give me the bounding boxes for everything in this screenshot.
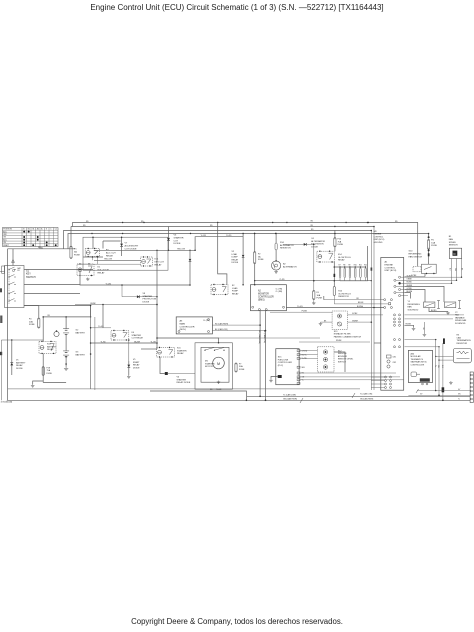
- ground below bullstop relay: [87, 278, 89, 279]
- wire shield drop x313: [313, 244, 315, 290]
- wire rd blk top: [299, 341, 370, 343]
- svg-text:DUMP: DUMP: [232, 257, 239, 259]
- wire from table: [39, 247, 41, 249]
- svg-text:LOAD: LOAD: [232, 253, 238, 256]
- svg-text:75A: 75A: [47, 369, 51, 372]
- svg-text:CONTROLLER: CONTROLLER: [411, 364, 425, 366]
- svg-text:N: N: [454, 252, 456, 256]
- controller A3 main controller: [176, 317, 212, 334]
- wire under A5 relay: [83, 256, 103, 258]
- svg-text:WH: WH: [454, 268, 456, 272]
- svg-text:R8: R8: [343, 265, 345, 267]
- svg-text:STARTER: STARTER: [177, 349, 187, 352]
- svg-text:B1: B1: [449, 236, 452, 238]
- svg-text:M: M: [217, 362, 220, 366]
- diode V1 battery relay diode: [10, 363, 13, 366]
- wire x94 vertical: [94, 317, 96, 390]
- svg-text:POSITION: POSITION: [3, 229, 12, 231]
- svg-text:ACC CUT: ACC CUT: [106, 251, 116, 254]
- svg-text:K14: K14: [338, 254, 343, 256]
- wire top bus 2: [71, 226, 374, 228]
- svg-text:FAN: FAN: [408, 306, 413, 309]
- PLC left connector: [278, 375, 282, 378]
- diode V3 starter cut diode: [167, 238, 170, 241]
- relay A5 accessory cut relay: [85, 249, 100, 257]
- svg-text:5A: 5A: [74, 250, 77, 253]
- switch S10 box: [422, 264, 437, 273]
- svg-text:YL (CAN LOW): YL (CAN LOW): [283, 393, 296, 396]
- svg-text:G2: G2: [76, 330, 80, 332]
- svg-text:GROUND: GROUND: [374, 242, 383, 244]
- svg-text:ALTERNATOR: ALTERNATOR: [311, 240, 325, 243]
- svg-text:YL (CAN LOW): YL (CAN LOW): [360, 393, 373, 396]
- wire S13 left ground: [321, 321, 333, 323]
- connector strip right: [470, 372, 473, 403]
- relay K16 battery relay: [39, 341, 56, 353]
- svg-text:ALTERNATOR: ALTERNATOR: [283, 265, 297, 268]
- resistor R15 glow plug resistor: [333, 287, 335, 296]
- wire S12 right drop: [334, 352, 345, 372]
- svg-text:K1: K1: [98, 267, 101, 269]
- ECU pins y346: [394, 346, 396, 348]
- svg-text:PUMP: PUMP: [232, 291, 239, 293]
- svg-text:A2: A2: [258, 290, 262, 293]
- wires S13 right: [347, 314, 383, 316]
- svg-text:S10: S10: [409, 251, 414, 253]
- svg-text:SH: SH: [422, 328, 424, 331]
- svg-text:DIODE: DIODE: [133, 367, 140, 369]
- svg-text:FUSE: FUSE: [338, 244, 344, 246]
- svg-text:YELLOW: YELLOW: [104, 259, 112, 261]
- svg-text:R3: R3: [457, 335, 461, 337]
- svg-text:GN (CAN HIGH): GN (CAN HIGH): [360, 398, 374, 401]
- svg-text:GLOW PLUG: GLOW PLUG: [338, 293, 351, 295]
- svg-text:BU: BU: [448, 268, 450, 271]
- svg-text:DIODE: DIODE: [232, 262, 239, 264]
- wire yl gn upper: [91, 327, 111, 329]
- svg-text:R9: R9: [348, 265, 350, 267]
- svg-text:G3: G3: [76, 352, 80, 354]
- svg-text:F4: F4: [29, 319, 32, 321]
- ground below F5: [313, 302, 315, 303]
- wires B1 down: [451, 259, 453, 284]
- svg-text:RESISTOR: RESISTOR: [280, 248, 291, 250]
- svg-text:BK/GN: BK/GN: [358, 302, 364, 304]
- slash marks can: [352, 393, 355, 398]
- svg-text:RELAY: RELAY: [155, 263, 163, 266]
- svg-text:FUEL LINE: FUEL LINE: [278, 359, 289, 361]
- svg-text:CN2: CN2: [393, 362, 397, 364]
- svg-text:TELEMATICS: TELEMATICS: [411, 358, 424, 361]
- svg-text:WH: WH: [302, 367, 306, 369]
- controller A30 modular telematics gateway: [408, 350, 432, 382]
- wire yellow2: [94, 259, 141, 261]
- svg-text:PU/BK: PU/BK: [302, 311, 308, 313]
- diode V4 alternator excitation diode: [304, 243, 307, 246]
- svg-text:GY/BK: GY/BK: [411, 275, 417, 277]
- svg-text:RD/BK: RD/BK: [336, 340, 342, 342]
- svg-text:BATTERY: BATTERY: [16, 361, 26, 364]
- svg-text:BATTERY: BATTERY: [76, 353, 86, 356]
- svg-text:STARTER: STARTER: [132, 334, 142, 337]
- wire batt middle: [65, 335, 67, 351]
- svg-text:RELAY: RELAY: [98, 271, 106, 274]
- shield block 1: [443, 338, 445, 344]
- fuse F1 5A: [70, 246, 72, 258]
- svg-text:BK (CAN LOW): BK (CAN LOW): [215, 328, 228, 331]
- wire battery bus right: [90, 306, 92, 389]
- svg-text:FUSE: FUSE: [258, 259, 264, 261]
- svg-text:F6: F6: [431, 240, 434, 242]
- svg-text:CUT RELAY: CUT RELAY: [132, 337, 144, 340]
- wire shield gnd1: [405, 325, 414, 327]
- wires ECU pins right: [405, 276, 462, 278]
- motor M1 starter motor: [201, 347, 229, 382]
- svg-text:PARKED CLEANING SWITCH: PARKED CLEANING SWITCH: [334, 335, 362, 338]
- wire glow plug bottom bus: [340, 246, 368, 281]
- solenoid Y2 variable speed: [445, 302, 456, 308]
- wire S10 down: [405, 276, 426, 278]
- svg-text:DIODE: DIODE: [16, 368, 23, 370]
- pins A3: [178, 331, 180, 333]
- svg-text:RESISTOR: RESISTOR: [338, 296, 349, 298]
- wire left edge stub: [0, 270, 5, 272]
- svg-text:F1: F1: [74, 249, 77, 251]
- svg-text:S13: S13: [334, 331, 338, 333]
- svg-text:RESISTOR: RESISTOR: [457, 343, 468, 345]
- svg-text:CONTROLLER: CONTROLLER: [278, 362, 293, 364]
- wires PLC bottom to right: [300, 372, 396, 374]
- svg-text:SPEED: SPEED: [449, 242, 457, 244]
- ground MTG: [450, 381, 452, 382]
- svg-text:(PLC): (PLC): [278, 365, 284, 367]
- wires ECU left exits: [374, 342, 381, 344]
- svg-text:CONTROL: CONTROL: [385, 267, 396, 269]
- svg-text:DIODE: DIODE: [311, 246, 318, 248]
- connector R3 CAN termination resistor: [453, 349, 471, 363]
- wire starter bottom bus: [150, 391, 246, 400]
- wires MTG verticals: [435, 340, 437, 391]
- svg-text:(EMS): (EMS): [258, 300, 265, 302]
- svg-text:RD (CAN HIGH): RD (CAN HIGH): [258, 330, 261, 344]
- wire left border: [7, 249, 9, 400]
- svg-text:MODULAR: MODULAR: [411, 355, 422, 358]
- relay K15 starter relay: [157, 348, 175, 358]
- fuse F24 75A: [334, 238, 336, 247]
- svg-text:MONITOR: MONITOR: [258, 294, 269, 296]
- svg-text:OR/BK: OR/BK: [90, 303, 96, 305]
- left edge connector marks: [0, 288, 2, 292]
- svg-text:V6: V6: [177, 377, 180, 379]
- svg-text:Copyright Deere & Company, tod: Copyright Deere & Company, todos los der…: [131, 617, 343, 626]
- MTG bottom connector block: [420, 378, 430, 381]
- wire top bus 1: [73, 223, 418, 267]
- relay K1 bullstop relay: [77, 264, 94, 276]
- svg-text:FUSE: FUSE: [74, 254, 80, 256]
- svg-text:MAIN: MAIN: [180, 322, 186, 325]
- svg-text:F7: F7: [239, 364, 242, 366]
- wires bottom right: [417, 390, 470, 392]
- starter motor outer box: [195, 343, 232, 389]
- junction dots extra: [92, 236, 94, 238]
- svg-text:CN1: CN1: [393, 357, 397, 359]
- svg-text:F28: F28: [47, 368, 51, 370]
- svg-text:RELAY: RELAY: [47, 348, 54, 351]
- svg-text:K16: K16: [47, 344, 52, 346]
- svg-text:CONTROL: CONTROL: [374, 236, 385, 238]
- svg-text:F2: F2: [258, 254, 261, 256]
- svg-text:DIODE: DIODE: [174, 243, 181, 245]
- svg-text:F5: F5: [317, 292, 320, 294]
- svg-text:V4: V4: [311, 238, 314, 240]
- wire yl bus: [80, 270, 191, 286]
- svg-text:YL-RD: YL-RD: [226, 235, 232, 237]
- ground k16 chain: [32, 384, 34, 385]
- svg-text:20A: 20A: [29, 320, 33, 323]
- svg-text:C1: C1: [55, 229, 57, 231]
- wire yl rd above A2: [255, 280, 372, 282]
- svg-text:RELAY: RELAY: [232, 292, 239, 295]
- svg-text:BU/WH: BU/WH: [357, 306, 364, 308]
- wire yl-rd riser: [195, 237, 243, 251]
- solenoid Y1: [424, 302, 435, 308]
- diode V5 start relay diode: [127, 365, 130, 368]
- svg-text:GL: GL: [32, 229, 34, 231]
- wire top bus 3: [64, 231, 372, 249]
- svg-text:YL-RD: YL-RD: [201, 235, 207, 237]
- svg-text:BK (CAN LOW): BK (CAN LOW): [263, 330, 266, 344]
- ECU left bus wires: [370, 231, 372, 391]
- svg-text:BULLSTOP: BULLSTOP: [98, 269, 110, 271]
- svg-text:YL-GN: YL-GN: [297, 306, 303, 308]
- svg-text:S15: S15: [278, 357, 283, 359]
- wire batt bottom: [65, 357, 67, 367]
- svg-text:(MCU): (MCU): [180, 329, 187, 331]
- switch S1 key switch: [5, 266, 25, 308]
- svg-text:V7: V7: [125, 243, 128, 245]
- ground starter motor: [218, 381, 220, 382]
- svg-text:K2: K2: [232, 285, 235, 287]
- wire key switch to acc bus: [24, 269, 93, 271]
- ECU pins right top staggered: [399, 276, 401, 278]
- diode V8 starter protection diode: [137, 295, 140, 298]
- svg-text:REVERSING: REVERSING: [409, 253, 422, 255]
- wire bottom battery: [43, 382, 66, 384]
- relay K2 load dump relay: [211, 285, 228, 295]
- svg-text:FUSE: FUSE: [29, 324, 35, 326]
- controller S15 fuel line controller PLC: [276, 349, 299, 385]
- svg-text:STARTER: STARTER: [177, 378, 187, 381]
- wire battery top: [42, 317, 44, 342]
- svg-text:GN/WH: GN/WH: [352, 320, 359, 322]
- svg-text:30A: 30A: [239, 365, 243, 368]
- svg-text:V2: V2: [232, 251, 235, 253]
- svg-text:RELAY: RELAY: [177, 352, 184, 355]
- ECU pins bottom cluster: [385, 376, 387, 378]
- wire glow plug feed down: [333, 262, 335, 287]
- svg-text:YL: YL: [434, 365, 436, 367]
- wire k16 down: [42, 353, 44, 382]
- svg-text:FUSE: FUSE: [239, 369, 245, 371]
- fuse F4 20A: [38, 318, 40, 328]
- svg-text:V8: V8: [143, 293, 146, 295]
- junction dots can bus: [259, 396, 261, 398]
- svg-text:5A: 5A: [258, 255, 261, 258]
- svg-text:SOLENOID: SOLENOID: [408, 309, 419, 311]
- ECU pins mid: [384, 307, 386, 309]
- svg-text:75A: 75A: [338, 240, 342, 243]
- wire key switch mid1: [24, 284, 80, 286]
- wire bottom CAN low: [247, 395, 470, 397]
- svg-text:(TX1164443): (TX1164443): [1, 401, 13, 403]
- switch S12 remote level switch: [318, 347, 335, 372]
- svg-text:FAN: FAN: [455, 314, 459, 317]
- svg-text:GY/RD: GY/RD: [407, 288, 413, 290]
- svg-text:MOTOR: MOTOR: [205, 366, 213, 368]
- ECU internal parts: [387, 355, 392, 358]
- svg-text:SPEED FAN: SPEED FAN: [455, 319, 467, 322]
- ground battery: [65, 367, 67, 369]
- diode V7 accessory cut diode: [120, 244, 123, 247]
- svg-text:YL-GN: YL-GN: [216, 389, 222, 391]
- svg-text:Engine Control Unit (ECU) Circ: Engine Control Unit (ECU) Circuit Schema…: [90, 3, 383, 12]
- svg-text:V5: V5: [133, 359, 136, 361]
- wire starter feed: [156, 250, 158, 338]
- wire yellow: [94, 249, 195, 251]
- svg-text:10A: 10A: [431, 241, 435, 244]
- svg-text:A1: A1: [385, 261, 388, 264]
- switch S13 exhaust filter parked cleaning switch: [332, 311, 347, 330]
- wire BK/GN into ECU: [334, 303, 388, 305]
- key switch left tab: [2, 266, 5, 273]
- wire k15 bottom: [160, 357, 165, 374]
- svg-text:ENGINE: ENGINE: [385, 264, 394, 266]
- svg-text:SENSOR: SENSOR: [449, 245, 458, 247]
- wire solenoid grounds: [429, 308, 448, 312]
- resistor R1 alternator resistor: [275, 243, 277, 250]
- svg-text:RD/BK: RD/BK: [406, 324, 412, 326]
- svg-text:K15: K15: [177, 348, 182, 350]
- wire key switch bottom: [24, 306, 91, 317]
- svg-text:START: START: [3, 244, 10, 247]
- svg-text:CL (8W): CL (8W): [276, 291, 283, 293]
- MTG antenna symbol: [411, 372, 417, 377]
- wire key switch mid2: [24, 293, 80, 295]
- svg-text:GY/BU: GY/BU: [352, 313, 358, 315]
- svg-text:V1: V1: [16, 360, 19, 362]
- svg-text:CAN: CAN: [457, 336, 462, 339]
- wire drop x190 with diode: [189, 250, 191, 258]
- svg-text:RELAY: RELAY: [133, 364, 140, 367]
- svg-text:RD/BU: RD/BU: [407, 282, 413, 284]
- svg-text:RELAY: RELAY: [106, 254, 114, 257]
- battery relay contact circle: [54, 331, 59, 336]
- diode V2 load dump relay diode: [242, 234, 244, 255]
- node RD feed wire: [8, 248, 75, 250]
- svg-text:B1: B1: [18, 270, 20, 272]
- wire A2 can drops: [259, 311, 261, 397]
- controller A2 monitor controller EMS: [251, 285, 287, 311]
- svg-text:YL/RD: YL/RD: [407, 276, 413, 278]
- ground below alternator: [275, 270, 277, 271]
- svg-text:YL-RD: YL-RD: [279, 279, 285, 281]
- table contact dots: [23, 231, 25, 233]
- svg-text:RELAY: RELAY: [338, 259, 345, 262]
- svg-text:FAN SWITCH: FAN SWITCH: [409, 255, 423, 258]
- svg-text:STARTER: STARTER: [143, 295, 153, 298]
- starter solenoid contacts: [205, 348, 214, 351]
- wire glow plug top bus: [334, 266, 365, 268]
- svg-text:YL-RD: YL-RD: [106, 283, 112, 285]
- key switch position table: [3, 228, 59, 247]
- svg-text:GN (CAN HIGH): GN (CAN HIGH): [283, 398, 297, 401]
- svg-text:Y2: Y2: [455, 312, 458, 314]
- pins A2 corners: [252, 306, 254, 308]
- svg-text:UNIT (ECU): UNIT (ECU): [374, 239, 385, 241]
- svg-text:START: START: [133, 361, 140, 364]
- relay K4 starter cut relay: [111, 331, 129, 341]
- svg-text:RELAY DIODE: RELAY DIODE: [177, 381, 191, 384]
- svg-text:10A: 10A: [317, 294, 321, 297]
- svg-text:BK/RD: BK/RD: [431, 310, 437, 312]
- diode V6 starter relay diode: [165, 372, 168, 375]
- wire ECU lower right: [405, 314, 465, 316]
- wire yellow3: [77, 263, 141, 265]
- ECU pins y338: [394, 339, 396, 341]
- PLC pins right: [297, 350, 300, 352]
- wire OR into ECU: [323, 296, 325, 300]
- svg-text:OR/BK: OR/BK: [407, 279, 413, 281]
- wire acc relay feeds: [92, 237, 94, 248]
- shield mark on left bus: [371, 268, 373, 271]
- wires PLC to S12: [300, 350, 318, 352]
- relay K14 glow plug relay: [317, 251, 335, 262]
- wire starter top: [157, 338, 219, 343]
- svg-text:R14: R14: [280, 242, 285, 244]
- svg-text:SOLENOID: SOLENOID: [455, 323, 466, 325]
- svg-text:PROTECTION: PROTECTION: [143, 299, 157, 301]
- svg-text:RELAY: RELAY: [16, 364, 23, 367]
- svg-text:CONTROLLER: CONTROLLER: [258, 297, 274, 299]
- svg-text:A30: A30: [411, 353, 415, 356]
- wires A3 right: [212, 324, 260, 326]
- svg-text:STARTER: STARTER: [205, 362, 215, 365]
- alternator G1: [272, 261, 281, 270]
- wire A2 right: [286, 307, 383, 309]
- pins A2 bottom: [258, 309, 260, 311]
- wire drop x217: [218, 223, 227, 285]
- svg-text:TERMINATION: TERMINATION: [457, 339, 472, 342]
- svg-text:GATEWAY (MTG): GATEWAY (MTG): [411, 361, 427, 364]
- svg-text:BATTERY: BATTERY: [76, 331, 86, 334]
- svg-text:LOAD: LOAD: [232, 287, 238, 290]
- svg-text:CONTROLLER: CONTROLLER: [180, 326, 195, 328]
- svg-text:RD (CAN HIGH): RD (CAN HIGH): [215, 322, 228, 325]
- wire left lower vertical: [0, 340, 2, 400]
- svg-text:B1: B1: [28, 229, 30, 231]
- svg-text:REMOTE LEVEL: REMOTE LEVEL: [338, 359, 354, 361]
- fuse F6 10A: [428, 240, 430, 250]
- svg-text:SWITCH: SWITCH: [26, 276, 36, 279]
- svg-text:SERVICE: SERVICE: [338, 353, 347, 355]
- fuse F5 10A: [313, 291, 315, 300]
- relay group box: [83, 237, 168, 270]
- svg-text:KEY CUT: KEY CUT: [155, 261, 165, 263]
- svg-text:FUSE: FUSE: [431, 245, 437, 247]
- svg-text:A3: A3: [180, 320, 183, 323]
- relay K11 key cut relay: [141, 257, 153, 266]
- svg-text:ADVISOR: ADVISOR: [338, 355, 348, 358]
